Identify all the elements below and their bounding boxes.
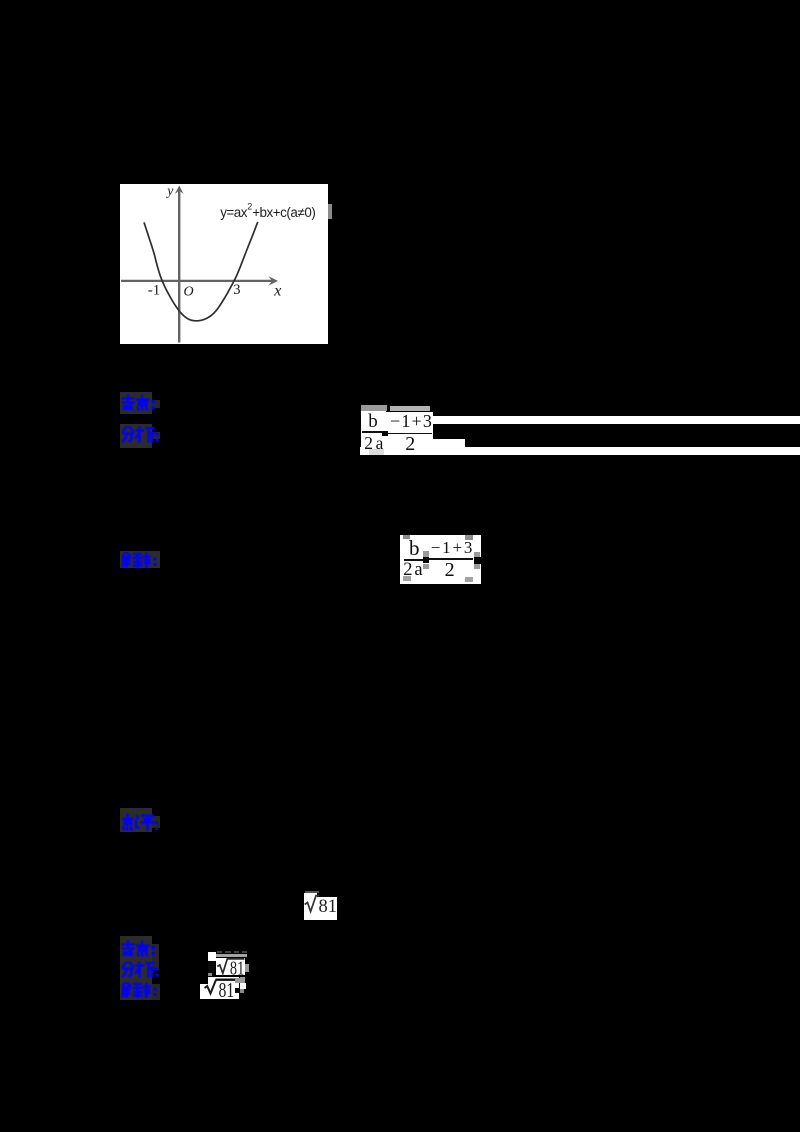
grey tip below black bar (208, 973, 212, 976)
sqrt81 thick (200, 975, 240, 1001)
svg-text:y: y (165, 184, 174, 198)
graph axes and parabola (120, 184, 328, 344)
white strip bottom full (360, 447, 800, 455)
svg-text:-1: -1 (148, 283, 161, 299)
graph image white box (120, 184, 328, 344)
white patch 1 (361, 409, 387, 455)
fraction b/2a (409, 536, 420, 561)
selection handle right (474, 557, 481, 564)
white box left part (304, 893, 317, 920)
white box main (208, 977, 240, 1000)
white patch 2 (386, 412, 433, 448)
dark equals mark (382, 431, 388, 436)
x-axis arrowhead (269, 276, 279, 285)
grey right (245, 964, 250, 972)
black bar (208, 961, 216, 976)
svg-text:O: O (184, 285, 194, 300)
blue text dianping: (121, 813, 159, 831)
blue text fenxi: (121, 426, 159, 443)
white box left part (200, 984, 208, 1000)
grey bar artifact right of graph box (328, 204, 332, 219)
small white square (208, 952, 217, 961)
blue text kaodian: (121, 394, 159, 411)
grey marks right (235, 978, 245, 983)
white box (400, 535, 481, 584)
dark grey dash above (305, 891, 319, 894)
svg-text:81: 81 (319, 896, 337, 917)
parabola (144, 222, 258, 321)
fraction b/2a (368, 411, 378, 433)
grey strip above (216, 954, 247, 958)
svg-text:y=ax: y=ax (220, 205, 248, 220)
svg-text:x: x (273, 283, 281, 300)
sqrt81 (216, 951, 248, 976)
white notch right (240, 983, 246, 989)
svg-text:81: 81 (218, 979, 234, 1001)
white small mid rect (433, 439, 465, 448)
white strip right top (433, 416, 800, 424)
blue text kaodian: (121, 940, 159, 957)
blue text fenxi: (121, 961, 159, 978)
y-axis arrowhead (175, 186, 184, 195)
highlight box 1 (120, 392, 152, 414)
white box main (304, 897, 337, 920)
fraction (-1+3)/2 (390, 411, 433, 432)
grey corner marks (403, 535, 410, 539)
grey artifacts on top edges (361, 405, 387, 411)
svg-text:81: 81 (229, 957, 243, 976)
svg-text:+bx+c(a≠0): +bx+c(a≠0) (252, 205, 315, 220)
blue text jieda: (121, 982, 159, 998)
svg-text:3: 3 (233, 282, 240, 298)
white box (216, 958, 246, 976)
sqrt81 (304, 885, 344, 921)
blue text jieda: (121, 552, 159, 568)
selection handle mid (423, 557, 430, 564)
dark dashes above strip (217, 951, 222, 953)
fraction (-1+3)/2 (431, 538, 474, 558)
x-axis (121, 280, 273, 282)
y-axis (178, 190, 180, 343)
